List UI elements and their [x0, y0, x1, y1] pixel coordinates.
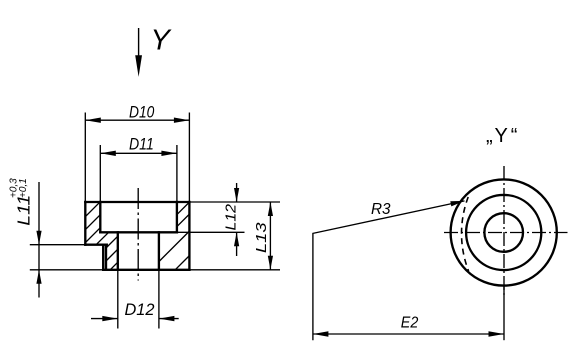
- hatch line right wall 4: [175, 256, 189, 270]
- svg-text:L12: L12: [222, 203, 239, 230]
- hatch line left wall 4: [96, 232, 109, 244]
- thin extension lines: [30, 113, 280, 329]
- D11 ext right: [176, 145, 178, 202]
- counterbore D11 right wall: [176, 202, 178, 232]
- hatch line right wall 2: [177, 214, 189, 226]
- inner circle D12: [484, 213, 523, 252]
- bottom ext to left (L11): [30, 269, 103, 271]
- hatch line right wall 3: [159, 231, 190, 262]
- cbore bottom ext to right (L12): [177, 231, 245, 233]
- D12 ext right: [158, 270, 160, 329]
- label L13: [253, 222, 270, 253]
- hatch line left wall 7: [110, 262, 118, 270]
- flat cut edge 2: [105, 245, 107, 270]
- label L11 +0,3/+0,1: [8, 178, 33, 226]
- counterbore bottom: [100, 231, 177, 233]
- svg-text:“: “: [511, 125, 518, 147]
- svg-text:Y: Y: [495, 125, 508, 147]
- hatch line right wall 1: [177, 202, 189, 214]
- middle circle D11: [466, 195, 541, 270]
- bore D12 right wall: [158, 232, 160, 269]
- counterbore D11 left wall: [99, 202, 101, 232]
- svg-text:R3: R3: [371, 201, 391, 218]
- svg-text:L13: L13: [253, 222, 270, 253]
- hatch line left wall 1: [85, 202, 100, 217]
- dimension E2: [313, 331, 504, 336]
- hatch line left wall 2: [85, 215, 100, 230]
- D10 ext left: [84, 113, 86, 203]
- svg-text:L11: L11: [13, 195, 33, 226]
- svg-text:D12: D12: [125, 301, 155, 319]
- top face ext to right (L12/L13): [189, 201, 280, 203]
- E2 ext line right (below circle): [503, 286, 505, 340]
- bottom face: [103, 269, 189, 271]
- hatch line left wall 6: [106, 249, 118, 261]
- dimension L11: [36, 182, 41, 298]
- step (flange bottom): [85, 244, 107, 246]
- dimension L13: [268, 202, 273, 270]
- svg-text:+0,1: +0,1: [18, 178, 29, 198]
- dimension D12: [91, 316, 179, 321]
- svg-text:„: „: [486, 125, 493, 147]
- outer circle D10: [451, 179, 557, 285]
- centerline front view: [137, 188, 139, 281]
- flat cut edge 1: [102, 245, 104, 270]
- dimension D10: [85, 118, 189, 123]
- svg-text:Y: Y: [151, 25, 173, 57]
- flange/body right edge: [188, 202, 190, 270]
- part outline: top face: [85, 201, 189, 203]
- centerline vertical (top view): [503, 166, 505, 298]
- bore D12 left wall: [117, 232, 119, 269]
- svg-text:D10: D10: [129, 104, 155, 122]
- D11 ext left: [99, 145, 101, 202]
- centerline horizontal (top view): [444, 232, 568, 234]
- hatch line left wall 5: [106, 236, 118, 248]
- dimension L12: [234, 183, 239, 256]
- flange left edge: [84, 202, 86, 245]
- hidden flat arc R3 (dashed): [462, 197, 469, 271]
- step ext to left (L11): [30, 244, 86, 246]
- D10 ext right: [188, 113, 190, 203]
- dimension D11: [100, 151, 177, 156]
- D12 ext left: [117, 270, 119, 329]
- bottom ext to right (L13): [189, 269, 280, 271]
- R3 leader: [313, 201, 465, 340]
- svg-text:E2: E2: [401, 314, 419, 331]
- hatch line left wall 3: [85, 228, 100, 243]
- view direction arrow Y: [135, 28, 142, 77]
- svg-text:D11: D11: [129, 135, 154, 153]
- label L12: [222, 203, 239, 230]
